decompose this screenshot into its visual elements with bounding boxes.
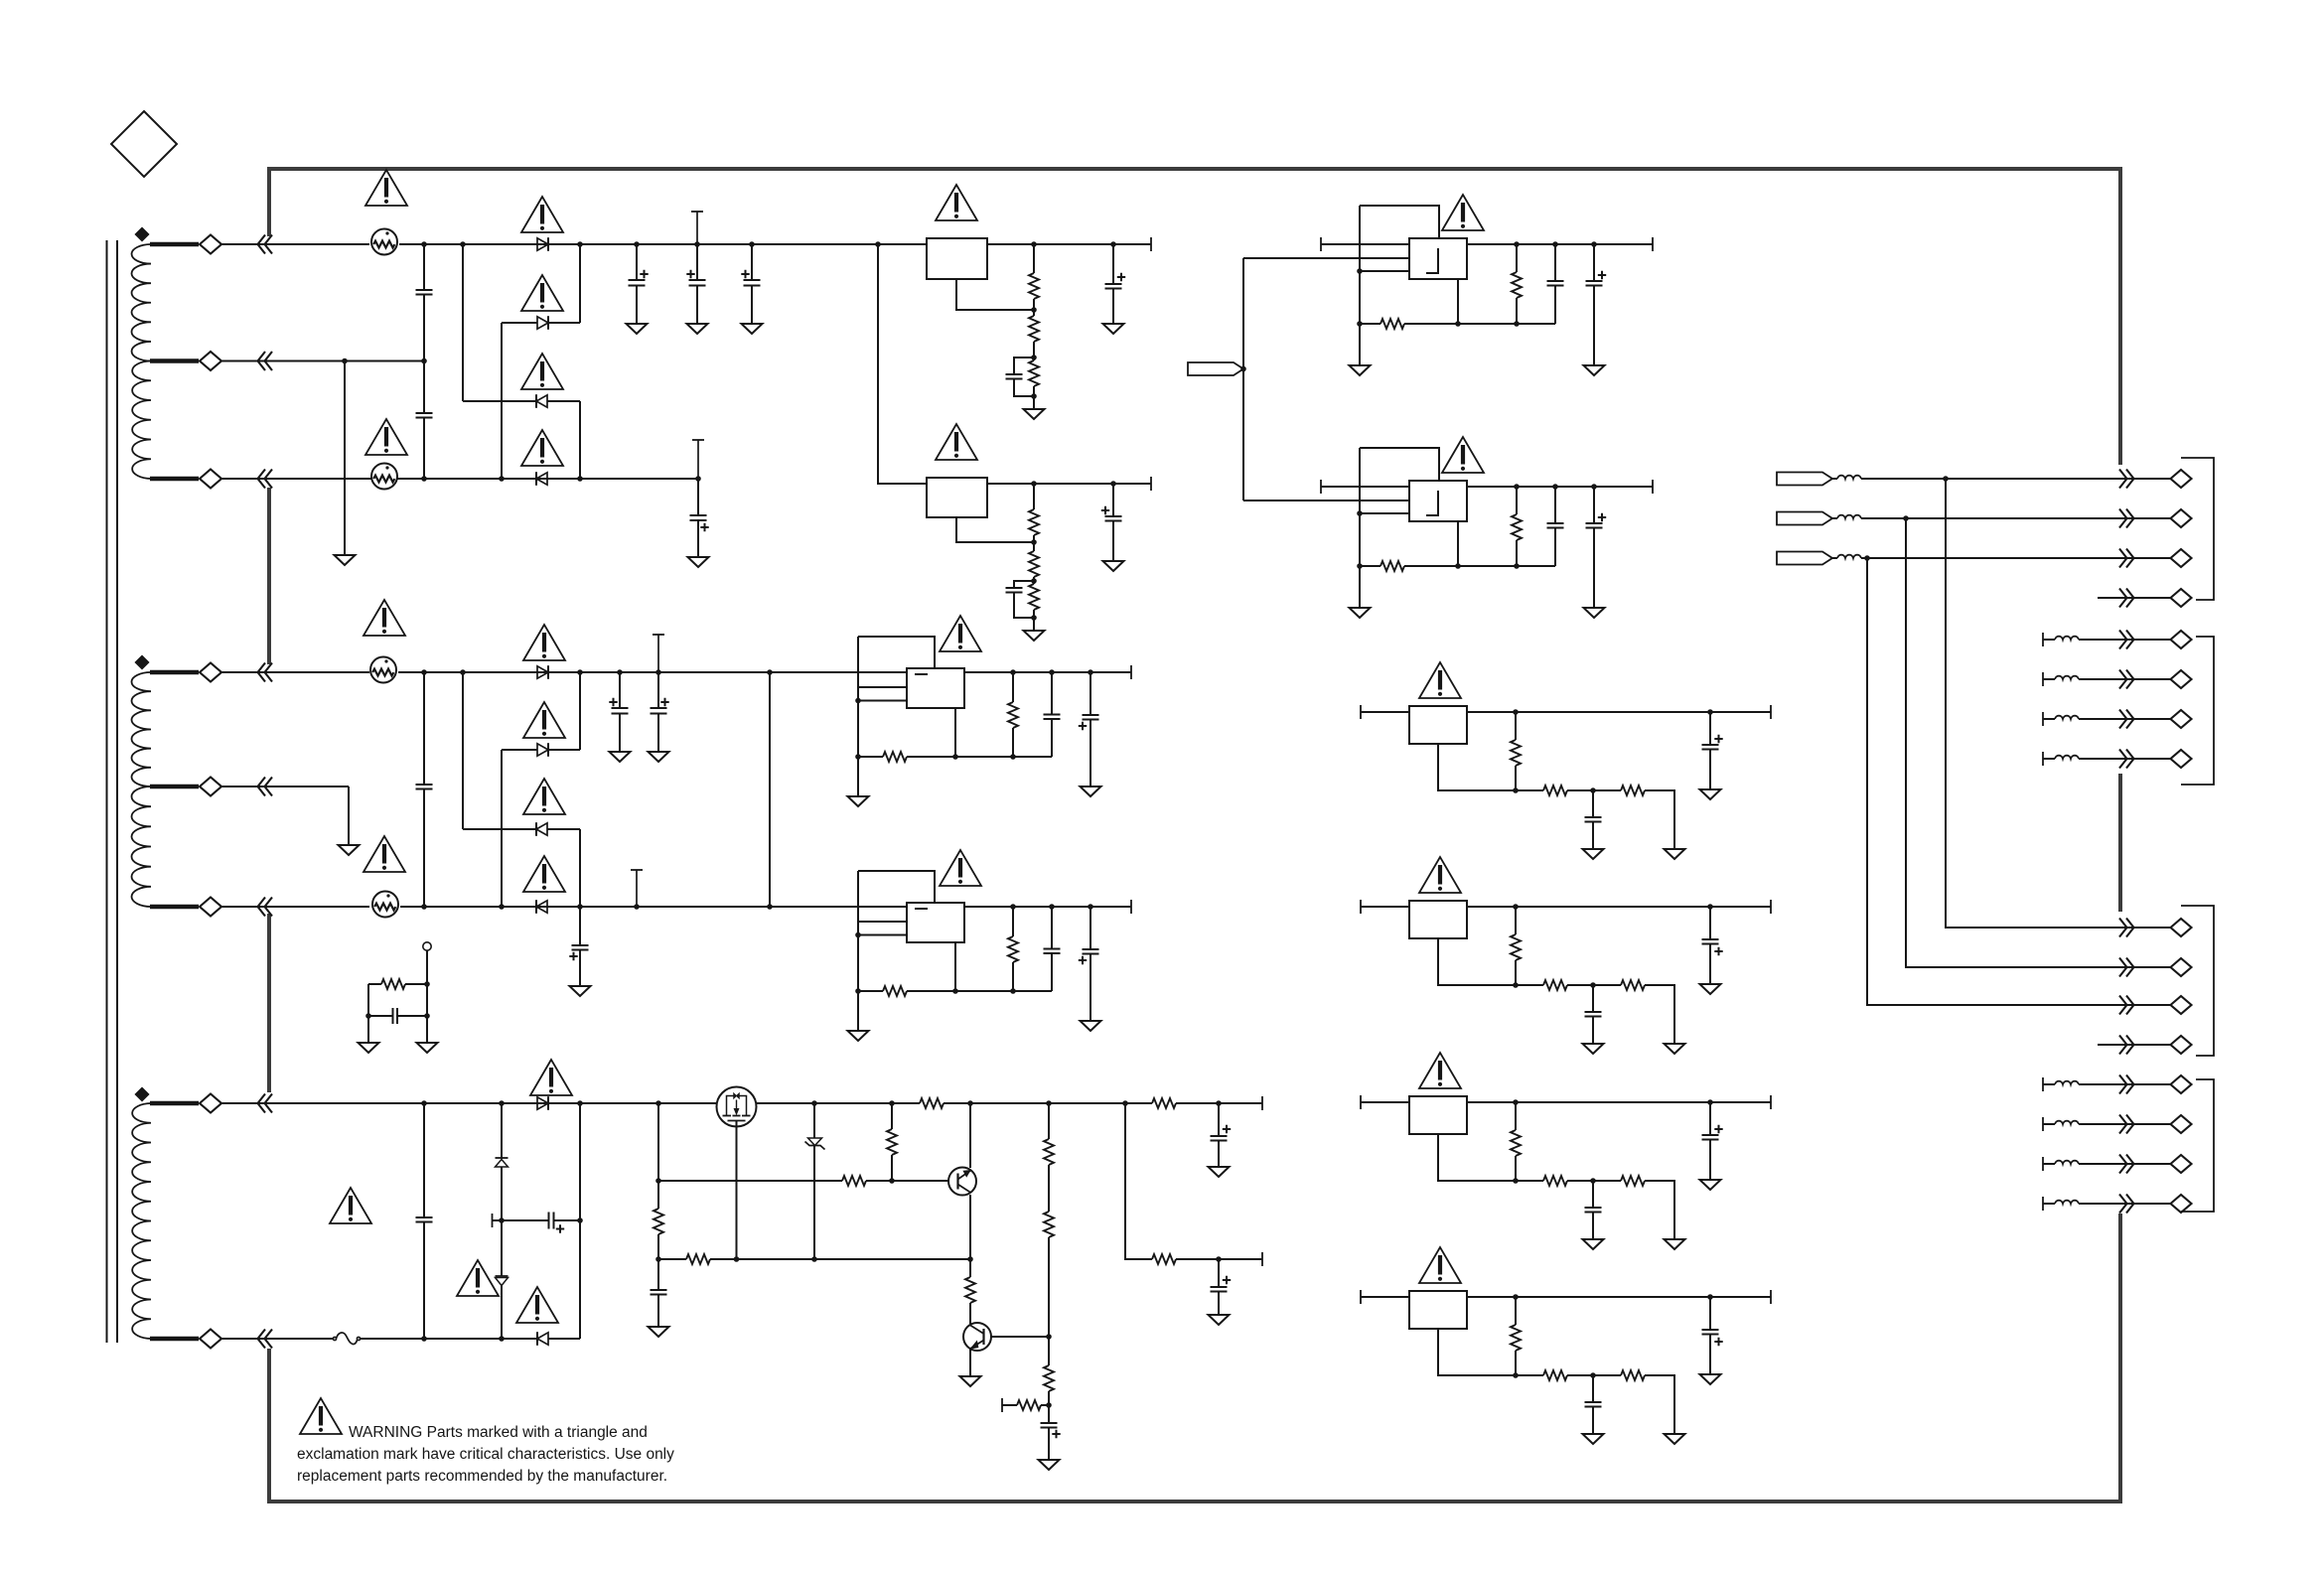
capacitor polar <box>689 279 706 281</box>
capacitor polar <box>612 707 629 709</box>
warning triangle <box>1442 195 1484 230</box>
wire stub <box>2098 1044 2171 1046</box>
wire <box>1861 557 2171 559</box>
resistor <box>1008 702 1018 728</box>
plus mark <box>1714 947 1722 955</box>
wire <box>1048 1237 1050 1365</box>
plus mark <box>640 270 648 278</box>
node <box>855 932 861 938</box>
resistor <box>883 986 907 996</box>
thermistor RT4 <box>372 892 398 918</box>
regulator IC <box>1409 1291 1467 1329</box>
voltage regulator U2 <box>927 478 987 517</box>
wire <box>969 1303 971 1324</box>
terminal tick <box>2042 752 2044 766</box>
capacitor polar <box>744 279 761 281</box>
terminal tick <box>1770 900 1772 914</box>
thermistor RT1 <box>371 229 397 255</box>
node <box>1552 241 1558 247</box>
no-connect stub <box>697 440 699 479</box>
ground <box>1584 365 1605 375</box>
node <box>1513 709 1519 715</box>
capacitor C2 <box>416 412 433 414</box>
node <box>1110 241 1116 247</box>
ground <box>688 557 709 567</box>
wire pin <box>858 686 907 688</box>
terminal tick <box>1150 237 1152 251</box>
ground <box>742 324 763 334</box>
voltage regulator U1 <box>927 238 987 279</box>
ground <box>1700 984 1721 994</box>
wire bus <box>1906 518 2171 967</box>
wire <box>1012 672 1014 702</box>
node <box>1707 1294 1713 1300</box>
zener Z3 <box>808 1138 822 1146</box>
wire W1 rail1 out <box>987 243 1151 245</box>
regulator IC <box>1409 706 1467 744</box>
capacitor polar <box>1702 744 1719 746</box>
wire <box>579 672 581 750</box>
capacitor wire <box>1089 907 1091 949</box>
resistor R9 <box>1152 1098 1176 1108</box>
capacitor C702 wire <box>696 244 698 280</box>
ground <box>649 1327 669 1337</box>
connector diamond <box>2171 958 2192 976</box>
wire pin <box>1360 270 1409 272</box>
connector bracket 4 <box>2181 1079 2214 1212</box>
diode D2 <box>537 317 548 329</box>
diode D8 <box>536 901 547 913</box>
wire <box>1645 1375 1674 1434</box>
resistor R10 <box>654 1209 663 1234</box>
wire row3 b <box>710 1258 970 1260</box>
node <box>1455 563 1461 569</box>
border frame left segment 2 <box>267 488 271 664</box>
wire <box>1516 984 1543 986</box>
ic dash <box>915 908 928 910</box>
ground <box>1081 786 1101 796</box>
transformer tap stub <box>150 1101 199 1105</box>
wire <box>579 1103 581 1339</box>
resistor <box>1543 1176 1567 1186</box>
warning triangle RT1 <box>365 170 407 206</box>
capacitor <box>1585 1207 1602 1209</box>
input chevron <box>258 352 273 370</box>
node <box>1010 988 1016 994</box>
warning triangle D7 <box>523 779 565 814</box>
output chevron <box>2119 549 2134 568</box>
ground <box>960 1376 981 1386</box>
wire <box>1516 244 1518 272</box>
wire <box>1832 517 1837 519</box>
transformer tap stub <box>150 1337 199 1341</box>
border frame right segment 1 <box>2118 167 2122 465</box>
terminal tick <box>1770 1290 1772 1304</box>
plus mark <box>569 952 577 960</box>
ground <box>848 1031 869 1041</box>
wire <box>221 243 369 245</box>
wire fb row <box>1360 565 1380 567</box>
wire rail <box>1321 486 1653 488</box>
node <box>655 1256 661 1262</box>
capacitor polar <box>629 279 646 281</box>
output chevron <box>2119 996 2134 1015</box>
node <box>1513 787 1519 793</box>
border frame top <box>267 167 2122 171</box>
resistor R11 <box>842 1176 866 1186</box>
ground <box>1584 608 1605 618</box>
node <box>1216 1256 1222 1262</box>
ground <box>1665 1434 1685 1444</box>
input chevron <box>258 1094 273 1113</box>
terminal tick <box>1320 237 1322 251</box>
wire <box>1832 557 1837 559</box>
wire W3 rail2 b <box>361 1338 537 1340</box>
node <box>1513 1099 1519 1105</box>
resistor R18 <box>1017 1400 1041 1410</box>
wire <box>1515 1351 1517 1375</box>
svg-text:exclamation mark have critical: exclamation mark have critical character… <box>297 1446 674 1463</box>
wire <box>2079 1083 2171 1085</box>
wire ic pin <box>1457 521 1459 566</box>
pin diamond <box>200 778 221 796</box>
inductor <box>1837 476 1861 479</box>
warning triangle <box>940 616 981 651</box>
ground <box>1024 631 1045 641</box>
wire <box>1516 1180 1543 1182</box>
plus mark <box>1117 273 1125 281</box>
resistor R4 <box>1029 509 1039 535</box>
signal tag <box>1777 512 1832 525</box>
node <box>1122 1100 1128 1106</box>
wire <box>1033 244 1035 273</box>
connector diamond <box>2171 1115 2192 1133</box>
capacitor wire <box>1592 790 1594 817</box>
wire W3 rail1 a <box>272 1102 920 1104</box>
wire <box>1516 487 1518 514</box>
wire <box>2043 1163 2055 1165</box>
node <box>1088 904 1093 910</box>
wire rail <box>1321 243 1653 245</box>
node <box>749 241 755 247</box>
wire <box>813 1146 815 1260</box>
capacitor wire <box>1592 985 1594 1012</box>
resistor <box>1511 1130 1521 1156</box>
node <box>811 1256 817 1262</box>
node <box>365 1013 371 1019</box>
wire U2 gnd pin <box>956 517 1034 542</box>
svg-text:WARNING Parts marked with a tr: WARNING Parts marked with a triangle and <box>349 1424 648 1441</box>
capacitor wire <box>1554 244 1556 281</box>
ground <box>610 752 631 762</box>
border frame left segment 3 <box>267 914 271 1092</box>
capacitor polar wire <box>1709 907 1711 939</box>
node <box>577 669 583 675</box>
wire fb row <box>858 756 883 758</box>
capacitor C9 <box>1105 515 1122 517</box>
wire <box>405 983 427 985</box>
node <box>1357 321 1363 327</box>
diode Z2 <box>496 1275 508 1277</box>
inductor <box>2055 1201 2079 1204</box>
connector diamond <box>2171 509 2192 527</box>
thermistor RT3 <box>370 657 396 683</box>
warning triangle <box>1442 437 1484 473</box>
terminal tick <box>1261 1096 1263 1110</box>
connector diamond <box>2171 670 2192 688</box>
capacitor C757 wire <box>751 244 753 280</box>
signal tag <box>1777 552 1832 565</box>
input chevron <box>258 663 273 682</box>
output chevron <box>2119 750 2134 769</box>
node <box>767 669 773 675</box>
node <box>1357 268 1363 274</box>
wire Q3 pin <box>736 1121 738 1260</box>
inductor <box>2055 637 2079 640</box>
diode D10 <box>537 1333 548 1345</box>
node <box>1031 393 1037 399</box>
wire U1 gnd pin <box>956 279 1034 310</box>
connector diamond <box>2171 1075 2192 1093</box>
wire <box>2043 1083 2055 1085</box>
no-connect stub <box>657 635 659 672</box>
sheet reference diamond <box>111 111 177 177</box>
node <box>1514 484 1520 490</box>
node <box>1590 982 1596 988</box>
capacitor <box>1044 714 1061 716</box>
wire ic pin <box>1457 279 1459 324</box>
output chevron <box>2119 1155 2134 1174</box>
ground <box>339 845 360 855</box>
node <box>1864 555 1870 561</box>
wire <box>2043 1123 2055 1125</box>
wire <box>221 478 369 480</box>
node <box>1031 615 1037 621</box>
wire <box>463 400 536 402</box>
wire <box>891 1155 893 1181</box>
node <box>421 476 427 482</box>
resistor <box>1380 561 1404 571</box>
node <box>952 754 958 760</box>
output chevron <box>2119 958 2134 977</box>
ground <box>1209 1167 1230 1177</box>
wire pin <box>858 921 907 923</box>
node <box>767 904 773 910</box>
wire Q1 emitter <box>969 1195 971 1259</box>
wire <box>221 671 369 673</box>
node <box>1010 669 1016 675</box>
wire W3 rail2 <box>272 1338 334 1340</box>
resistor <box>1511 934 1521 960</box>
connector diamond <box>2171 996 2192 1014</box>
node <box>1010 754 1016 760</box>
wire W2 rail2 <box>272 786 349 787</box>
wire <box>1516 298 1518 324</box>
wire tag bus <box>1242 258 1244 500</box>
capacitor C11 <box>392 1008 394 1024</box>
warning triangle <box>940 850 981 886</box>
transformer T1 winding W3 <box>132 1103 151 1339</box>
polarity marker W1 <box>136 228 149 241</box>
node <box>889 1178 895 1184</box>
ic notch <box>1426 248 1438 273</box>
plus mark <box>1079 956 1087 964</box>
no-connect stub <box>696 212 698 244</box>
wire pin <box>1360 512 1409 514</box>
ground <box>1583 1044 1604 1054</box>
warning triangle RT2 <box>365 419 407 455</box>
capacitor wire <box>1593 244 1595 281</box>
plus mark <box>700 523 708 531</box>
wire <box>502 322 537 324</box>
capacitor C7 wire <box>1112 244 1114 284</box>
resistor <box>1621 1370 1645 1380</box>
connector diamond <box>2171 750 2192 768</box>
ground <box>1039 1460 1060 1470</box>
resistor R16 <box>1044 1212 1054 1237</box>
wire <box>2079 1163 2171 1165</box>
transformer T1 winding W1 upper <box>131 244 151 361</box>
terminal tick <box>2042 1077 2044 1091</box>
capacitor C16 <box>1211 1135 1228 1137</box>
input chevron <box>258 778 273 796</box>
wire <box>1048 1165 1050 1212</box>
node <box>1514 563 1520 569</box>
input chevron <box>258 235 273 254</box>
diode D3 <box>536 395 547 407</box>
terminal tick <box>492 1214 494 1227</box>
connector diamond <box>2171 1036 2192 1054</box>
wire <box>1567 789 1621 791</box>
wire <box>426 950 428 984</box>
plus mark <box>660 698 668 706</box>
resistor R7 <box>381 979 405 989</box>
wire <box>1515 1297 1517 1325</box>
polarity marker W2 <box>136 656 149 669</box>
capacitor polar wire <box>1709 712 1711 745</box>
transformer tap stub <box>150 242 199 246</box>
node <box>655 669 661 675</box>
wire Q1 collector <box>969 1103 971 1168</box>
node <box>1240 366 1246 372</box>
node <box>855 988 861 994</box>
node <box>1049 904 1055 910</box>
plus mark <box>1101 506 1109 514</box>
wire U2 feed <box>878 244 927 484</box>
wire row3 <box>658 1258 686 1260</box>
node <box>1707 1099 1713 1105</box>
thermistor RT2 <box>371 464 397 490</box>
capacitor C1 <box>416 289 433 291</box>
connector diamond <box>2171 589 2192 607</box>
wire rail <box>1361 1296 1771 1298</box>
wire bus <box>1946 479 2171 928</box>
node <box>855 698 861 704</box>
warning triangle <box>1419 1053 1461 1088</box>
wire <box>1567 1374 1621 1376</box>
warning triangle D9 <box>530 1060 572 1095</box>
ground <box>335 555 356 565</box>
wire <box>657 1103 659 1209</box>
wire <box>1033 484 1035 509</box>
output chevron <box>2119 509 2134 528</box>
transformer T1 core <box>106 240 108 1343</box>
wire <box>657 1295 659 1328</box>
wire <box>1645 1181 1674 1239</box>
wire <box>2079 1123 2171 1125</box>
resistor R12 <box>887 1129 897 1155</box>
wire <box>1832 478 1837 480</box>
wire <box>501 1285 503 1339</box>
wire left leg <box>857 637 859 796</box>
node <box>460 241 466 247</box>
warning triangle D4 <box>521 430 563 466</box>
capacitor wire <box>619 672 621 708</box>
wire cap row <box>493 1219 549 1221</box>
wire <box>2079 718 2171 720</box>
connector bracket 3 <box>2181 906 2214 1056</box>
wire row2 <box>658 1180 842 1182</box>
fuse F1 <box>333 1337 336 1340</box>
plus mark <box>1052 1430 1060 1438</box>
wire <box>462 672 464 829</box>
wire <box>866 1180 948 1182</box>
ground <box>1583 849 1604 859</box>
no-connect stub <box>636 870 638 907</box>
ground <box>1700 1180 1721 1190</box>
node <box>1513 1372 1519 1378</box>
wire ic pin <box>954 942 956 991</box>
warning triangle <box>1419 1247 1461 1283</box>
capacitor wire <box>1592 1181 1594 1208</box>
wire <box>1041 1404 1049 1406</box>
wire <box>2043 718 2055 720</box>
wire <box>1404 565 1555 567</box>
wire rail <box>1361 906 1771 908</box>
capacitor wire <box>657 672 659 708</box>
border frame bottom <box>267 1500 2122 1503</box>
resistor R17 <box>1044 1365 1054 1391</box>
ground <box>1350 365 1371 375</box>
terminal tick <box>1360 1095 1362 1109</box>
node <box>499 476 505 482</box>
border frame right segment 3 <box>2118 1214 2122 1503</box>
node <box>617 669 623 675</box>
wire <box>1033 610 1035 631</box>
terminal tick <box>1261 1252 1263 1266</box>
warning triangle D10a <box>457 1260 499 1296</box>
regulator IC <box>1409 1096 1467 1134</box>
wire left leg <box>1359 448 1361 608</box>
wire <box>501 323 503 479</box>
wire loop <box>858 637 935 668</box>
terminal tick <box>1001 1398 1003 1412</box>
ground <box>687 324 708 334</box>
regulator IC <box>907 903 964 942</box>
wire pin <box>858 700 907 702</box>
node <box>499 1217 505 1223</box>
plus mark <box>1079 722 1087 730</box>
pin diamond <box>200 663 221 682</box>
border frame left segment 4 <box>267 1349 271 1503</box>
capacitor C8 <box>1006 587 1023 589</box>
terminal tick <box>2042 1157 2044 1171</box>
resistor R3 <box>1029 360 1039 386</box>
node <box>1590 787 1596 793</box>
plus mark <box>1223 1276 1231 1284</box>
resistor <box>1621 786 1645 795</box>
resistor <box>1543 786 1567 795</box>
